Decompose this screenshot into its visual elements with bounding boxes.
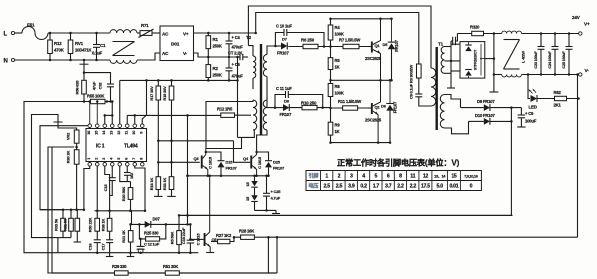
pin 3 IC1 bottom bbox=[103, 163, 107, 167]
svg-text:2.5: 2.5 bbox=[323, 184, 330, 190]
wire aux rectifier join bbox=[490, 107, 522, 109]
svg-text:100K: 100K bbox=[335, 32, 344, 37]
svg-text:R19 36V: R19 36V bbox=[162, 86, 167, 101]
resistor R25 330 bbox=[139, 224, 145, 239]
svg-text:R20 56K: R20 56K bbox=[121, 186, 126, 201]
resistor R1 250K bbox=[207, 33, 209, 57]
svg-text:D07: D07 bbox=[153, 217, 161, 222]
svg-text:引脚: 引脚 bbox=[308, 172, 318, 180]
pin 4 IC1 bottom bbox=[110, 163, 114, 167]
wire LED branch bbox=[528, 75, 530, 99]
svg-text:R9: R9 bbox=[335, 123, 341, 128]
resistor R10 250 bbox=[289, 107, 330, 109]
svg-text:4.7uF: 4.7uF bbox=[271, 196, 281, 201]
wire emitter return rail bbox=[331, 142, 392, 144]
resistor R12 1R5 bbox=[221, 113, 235, 117]
svg-text:R12 1R5: R12 1R5 bbox=[217, 107, 233, 112]
resistor R320 bbox=[457, 33, 501, 35]
varistor RV1 10D471K bbox=[70, 33, 72, 60]
snubber capacitor across rectifier bbox=[451, 40, 453, 42]
capacitor C12 1uF bbox=[140, 239, 142, 247]
ground R16 bbox=[154, 195, 163, 197]
wire pin15/16 feed bbox=[89, 102, 91, 125]
svg-text:FR107: FR107 bbox=[273, 166, 285, 171]
svg-text:3.9: 3.9 bbox=[348, 184, 355, 190]
diode D25 FR107 bbox=[257, 152, 269, 161]
wire driver emitter line bbox=[188, 175, 269, 177]
svg-text:V+: V+ bbox=[584, 22, 590, 28]
capacitor C14 102 bbox=[126, 166, 128, 173]
svg-text:R33 1K: R33 1K bbox=[162, 178, 167, 191]
wire V- output line bbox=[494, 74, 502, 76]
wire D07 line bbox=[132, 223, 191, 225]
svg-text:2SC2625: 2SC2625 bbox=[365, 56, 382, 61]
thermistor R71 bbox=[137, 32, 140, 34]
wire pin13/14 link bbox=[105, 114, 113, 116]
wire secondary taps bbox=[445, 46, 452, 48]
svg-text:5: 5 bbox=[117, 158, 121, 160]
svg-text:R33 56: R33 56 bbox=[54, 218, 59, 231]
pin 2 IC1 bottom bbox=[95, 163, 99, 167]
capacitor C4 470uF bbox=[228, 33, 230, 41]
svg-text:FR107: FR107 bbox=[392, 101, 397, 113]
diode D6 FR107 bbox=[389, 80, 391, 103]
resistor R28 16K bbox=[234, 236, 268, 238]
diode D9 FR107 bbox=[461, 107, 484, 109]
svg-text:3.7: 3.7 bbox=[385, 184, 392, 190]
svg-text:6: 6 bbox=[387, 174, 390, 180]
transistor Q3 C1815 bbox=[201, 156, 203, 169]
svg-text:0.2: 0.2 bbox=[360, 184, 367, 190]
svg-text:5.0: 5.0 bbox=[436, 184, 443, 190]
svg-text:C8 0.1uF R3 300/2W: C8 0.1uF R3 300/2W bbox=[409, 64, 414, 99]
wire feedback loop outer bbox=[24, 102, 83, 253]
svg-text:C18 22uF: C18 22uF bbox=[181, 227, 186, 244]
wire aux winding taps bbox=[445, 95, 461, 108]
transformer T1 secondary winding top bbox=[441, 47, 444, 74]
svg-text:FR107: FR107 bbox=[226, 166, 238, 171]
svg-text:4: 4 bbox=[362, 174, 365, 180]
svg-text:STPR1620CT: STPR1620CT bbox=[474, 49, 478, 70]
svg-text:R10 250: R10 250 bbox=[301, 101, 317, 106]
svg-text:R5 56K: R5 56K bbox=[170, 232, 175, 245]
svg-text:2.2: 2.2 bbox=[397, 184, 404, 190]
resistor R27 1K2 bbox=[211, 241, 234, 243]
transformer T1 primary winding bbox=[431, 68, 436, 106]
resistor R21 1K bbox=[128, 231, 133, 242]
svg-text:D25: D25 bbox=[273, 160, 281, 165]
svg-text:R16 1K: R16 1K bbox=[149, 178, 154, 191]
svg-text:L: L bbox=[4, 32, 8, 38]
svg-text:C15: C15 bbox=[103, 184, 108, 192]
svg-text:V-: V- bbox=[585, 68, 590, 74]
ground driver bbox=[255, 209, 277, 211]
svg-text:R25 330: R25 330 bbox=[144, 231, 159, 236]
svg-text:9: 9 bbox=[139, 132, 143, 134]
svg-text:11: 11 bbox=[124, 131, 128, 135]
wire column to D07 line bbox=[187, 115, 189, 224]
wire top rail A bbox=[248, 6, 431, 68]
wire feedback bus pin11 bbox=[126, 115, 128, 124]
svg-text:47uF: 47uF bbox=[92, 81, 97, 90]
diode D07 bbox=[145, 221, 151, 228]
svg-text:R51 30K: R51 30K bbox=[163, 264, 178, 269]
svg-text:C 11 1uF: C 11 1uF bbox=[276, 86, 292, 91]
svg-text:D01: D01 bbox=[171, 42, 180, 48]
resistor R7 1.5/0.5W bbox=[331, 46, 369, 48]
svg-text:12: 12 bbox=[423, 174, 429, 180]
svg-text:102: 102 bbox=[129, 172, 134, 179]
wire pin7 route bbox=[135, 166, 145, 211]
wire outer return rail bbox=[268, 236, 577, 238]
svg-text:R38 1K: R38 1K bbox=[100, 219, 105, 232]
capacitor C1 0.1uF bbox=[96, 33, 98, 45]
zener Z5 15V bbox=[254, 176, 256, 181]
svg-text:V+: V+ bbox=[183, 32, 189, 37]
svg-text:RV1: RV1 bbox=[75, 41, 84, 46]
svg-text:AC: AC bbox=[162, 51, 169, 56]
resistor R2 250K bbox=[207, 57, 209, 80]
node divider mid / capacitor CT 2.2K bbox=[206, 56, 241, 58]
pin 8 IC1 bottom bbox=[140, 163, 144, 167]
wire bottom rail bbox=[52, 272, 277, 274]
svg-text:C25 100uF: C25 100uF bbox=[562, 51, 566, 69]
resistor R33b 56K bbox=[62, 210, 64, 219]
svg-text:L 4/2W: L 4/2W bbox=[521, 51, 526, 63]
capacitor C25 100uF bbox=[568, 34, 570, 47]
svg-text:24V: 24V bbox=[572, 15, 581, 20]
svg-text:0: 0 bbox=[470, 184, 473, 190]
svg-text:D10 FR107: D10 FR107 bbox=[475, 113, 495, 118]
resistor R32 bbox=[76, 210, 78, 219]
svg-text:FR107: FR107 bbox=[277, 51, 289, 56]
svg-text:R62: R62 bbox=[554, 90, 562, 95]
wire V+ rail from bridge bbox=[194, 32, 256, 34]
svg-text:10: 10 bbox=[132, 131, 136, 135]
svg-text:R71: R71 bbox=[141, 23, 149, 28]
svg-text:C17: C17 bbox=[100, 243, 105, 251]
wire drive bus bbox=[158, 140, 233, 142]
resistor R38 1K bbox=[109, 211, 111, 219]
wire pin9 stub bbox=[142, 80, 146, 124]
resistor R19 36V bbox=[171, 80, 173, 140]
svg-text:IC 1: IC 1 bbox=[96, 144, 105, 150]
resistor R8 100K bbox=[330, 80, 332, 108]
resistor R16 1K bbox=[157, 141, 159, 177]
svg-text:TL494: TL494 bbox=[124, 144, 138, 150]
fuse F51 bbox=[15, 32, 22, 34]
svg-text:17.5: 17.5 bbox=[421, 184, 430, 190]
svg-text:N: N bbox=[4, 59, 8, 65]
terminal N bbox=[11, 58, 14, 61]
svg-text:100uF: 100uF bbox=[525, 119, 537, 124]
resistor R20 56K bbox=[128, 188, 133, 200]
capacitor C25 4.7uF bbox=[266, 176, 268, 194]
svg-text:R8: R8 bbox=[335, 84, 341, 89]
svg-text:13、14: 13、14 bbox=[434, 174, 446, 179]
wire collector rail Q1 bbox=[331, 18, 392, 20]
svg-text:R1: R1 bbox=[213, 37, 219, 42]
LED bbox=[531, 95, 538, 102]
resistor R50 22K bbox=[96, 211, 98, 219]
node stub from N line bbox=[83, 60, 85, 68]
svg-text:7: 7 bbox=[132, 158, 136, 160]
transformer T2 winding top-right bbox=[267, 46, 275, 55]
wire secondary center tap bbox=[445, 60, 463, 62]
svg-text:R2: R2 bbox=[213, 66, 219, 71]
svg-text:R27 1K2: R27 1K2 bbox=[216, 233, 232, 238]
pin 1 IC1 bottom bbox=[88, 163, 92, 167]
svg-text:C16: C16 bbox=[88, 243, 93, 251]
transformer T2 drive winding bottom-right bbox=[263, 100, 267, 130]
svg-text:R5: R5 bbox=[335, 58, 341, 63]
svg-text:5: 5 bbox=[375, 174, 378, 180]
svg-text:100K: 100K bbox=[335, 91, 344, 96]
svg-text:R4: R4 bbox=[335, 25, 341, 30]
pin 13 IC1 top bbox=[110, 124, 114, 128]
capacitor C11 1uF bbox=[275, 95, 286, 108]
svg-text:470uF: 470uF bbox=[232, 45, 244, 50]
capacitor C18 22uF bbox=[189, 224, 191, 240]
svg-text:1: 1 bbox=[325, 174, 328, 180]
pin 16 IC1 top bbox=[88, 124, 92, 128]
svg-text:15: 15 bbox=[94, 131, 98, 135]
wire pin10 stub bbox=[134, 115, 136, 124]
diode D5 FR107 bbox=[391, 19, 393, 42]
capacitor C9 100uF bbox=[520, 108, 522, 115]
svg-text:8: 8 bbox=[139, 158, 143, 160]
pin 5 IC1 bottom bbox=[118, 163, 122, 167]
svg-text:T2: T2 bbox=[246, 35, 252, 40]
svg-text:R12: R12 bbox=[54, 41, 62, 46]
terminal V- bbox=[579, 73, 582, 76]
svg-text:0.1uF: 0.1uF bbox=[92, 51, 103, 56]
svg-text:2: 2 bbox=[94, 158, 98, 160]
diode D15 FR107 bbox=[206, 152, 221, 161]
svg-text:+ C25: + C25 bbox=[271, 189, 282, 194]
wire feedback loop fourth bbox=[48, 147, 74, 273]
wire pin12 VCC drop bbox=[119, 80, 121, 124]
svg-text:3: 3 bbox=[350, 174, 353, 180]
wire primary return drop bbox=[237, 57, 239, 137]
resistor R3 300/2W and capacitor C8 0.1uF snubber bbox=[417, 64, 422, 78]
svg-text:R28 16K: R28 16K bbox=[239, 229, 254, 234]
svg-text:R21 1K: R21 1K bbox=[121, 230, 126, 243]
svg-text:R6 250: R6 250 bbox=[301, 38, 315, 43]
resistor R33 1K bbox=[171, 141, 173, 177]
wire bottom rail right end bbox=[276, 237, 278, 273]
svg-text:1K: 1K bbox=[335, 129, 340, 134]
transistor Q1 2SC2625 bbox=[371, 42, 373, 53]
svg-text:C 1815: C 1815 bbox=[208, 156, 213, 169]
pin 12 IC1 top bbox=[118, 124, 122, 128]
resistor R6 250 bbox=[288, 46, 331, 48]
wire pin1 route bbox=[84, 166, 90, 210]
svg-text:R31 56: R31 56 bbox=[63, 218, 68, 231]
wire V- stub from bridge bbox=[194, 53, 206, 57]
pin 15 IC1 top bbox=[95, 124, 99, 128]
svg-text:6: 6 bbox=[124, 158, 128, 160]
wire ground line bottom-left bbox=[58, 252, 198, 254]
diode D10 FR107 bbox=[469, 120, 484, 122]
diode D7 FR107 bbox=[275, 45, 281, 47]
svg-text:8: 8 bbox=[399, 174, 402, 180]
resistor R12 470K bbox=[49, 33, 51, 60]
svg-text:V-: V- bbox=[183, 51, 188, 56]
common-mode choke line filter bbox=[110, 30, 137, 33]
pin 9 IC1 top bbox=[140, 124, 144, 128]
svg-text:+ C5: + C5 bbox=[232, 62, 241, 67]
resistor R31 56K bbox=[70, 210, 72, 219]
terminal L bbox=[11, 31, 14, 34]
transformer T2 core bbox=[260, 44, 262, 135]
wire Q3 base line bbox=[158, 161, 200, 163]
wire rectifier output to choke node bbox=[485, 58, 494, 60]
capacitor C32 47uF bbox=[84, 73, 111, 84]
svg-text:R55 100K: R55 100K bbox=[87, 94, 104, 99]
svg-text:250K: 250K bbox=[213, 44, 222, 49]
capacitor C15 bbox=[111, 166, 113, 178]
diode D8 FR107 bbox=[267, 107, 283, 109]
resistor R5 1K bbox=[330, 47, 332, 81]
wire L line bbox=[48, 32, 110, 34]
svg-text:11: 11 bbox=[410, 174, 415, 180]
svg-text:C 12 1uF: C 12 1uF bbox=[144, 242, 160, 247]
wire pin2 route bbox=[96, 166, 98, 211]
svg-text:FR107: FR107 bbox=[394, 39, 399, 51]
wire inner return rail bbox=[179, 214, 513, 216]
svg-text:C 1815: C 1815 bbox=[257, 156, 262, 169]
svg-text:C 10 1uF: C 10 1uF bbox=[276, 24, 292, 29]
resistor R62 2K1 bbox=[537, 98, 579, 100]
svg-text:R320: R320 bbox=[470, 25, 480, 30]
wire group top line right bbox=[95, 210, 146, 212]
wire feedback loop third bbox=[40, 126, 88, 210]
ground secondary-left bbox=[447, 87, 455, 89]
svg-text:3: 3 bbox=[102, 158, 106, 160]
svg-text:2SC2625: 2SC2625 bbox=[365, 118, 382, 123]
transistor Q2 2SC2625 bbox=[371, 103, 373, 114]
resistor R29 330 bbox=[115, 271, 129, 275]
ground R33 bbox=[167, 195, 176, 197]
ground C9 bbox=[517, 126, 526, 128]
capacitor C5 470uF bbox=[228, 57, 230, 68]
transformer T2 primary winding top-left bbox=[248, 46, 253, 56]
capacitor C17 bbox=[106, 239, 113, 241]
pin 7 IC1 bottom bbox=[133, 163, 137, 167]
svg-text:2.5: 2.5 bbox=[336, 184, 343, 190]
transistor Q5 C1815 bbox=[190, 238, 203, 240]
svg-text:C24 100uF: C24 100uF bbox=[548, 51, 552, 69]
svg-text:R29 330: R29 330 bbox=[112, 264, 127, 269]
svg-text:AC: AC bbox=[162, 32, 169, 37]
svg-text:C1: C1 bbox=[100, 43, 106, 48]
ground rectifier center bbox=[489, 91, 498, 93]
resistor R51 30K bbox=[165, 271, 179, 275]
svg-text:D15: D15 bbox=[226, 160, 234, 165]
svg-text:2K1: 2K1 bbox=[554, 103, 562, 108]
capacitor C16 bbox=[94, 239, 101, 241]
resistor R4 100K bbox=[330, 19, 332, 47]
wire group top line left bbox=[40, 209, 84, 211]
terminal V+ 24V bbox=[579, 32, 582, 35]
wire V+ output line bbox=[522, 33, 579, 35]
pin 11 IC1 top bbox=[125, 124, 129, 128]
capacitor C24 100uF bbox=[554, 34, 556, 47]
svg-text:16: 16 bbox=[87, 131, 91, 135]
wire group bottoms bbox=[58, 237, 71, 239]
svg-text:R30 2K: R30 2K bbox=[66, 151, 71, 164]
svg-text:C32: C32 bbox=[98, 82, 103, 90]
capacitor C10 1uF bbox=[275, 33, 284, 47]
svg-text:FR107: FR107 bbox=[280, 112, 292, 117]
svg-text:15: 15 bbox=[451, 174, 457, 180]
transformer T1 core bbox=[436, 47, 438, 130]
svg-text:1: 1 bbox=[87, 158, 91, 160]
svg-text:2.2: 2.2 bbox=[410, 184, 417, 190]
pin 14 IC1 top bbox=[103, 124, 107, 128]
svg-text:+ C9: + C9 bbox=[525, 111, 534, 116]
wire feedback loop second bbox=[32, 115, 59, 238]
wire N to bridge bbox=[137, 53, 160, 60]
svg-text:T1: T1 bbox=[438, 42, 444, 47]
svg-text:F51: F51 bbox=[27, 23, 35, 28]
svg-text:10D471K: 10D471K bbox=[75, 48, 91, 53]
dual schottky rectifier STPR1620CT bbox=[460, 42, 485, 79]
resistor R17 36V bbox=[157, 80, 159, 140]
resistor R11 1.5/0.5W bbox=[331, 107, 369, 109]
svg-text:R17 36V: R17 36V bbox=[149, 86, 154, 101]
transformer T2 drive winding bottom-left bbox=[253, 100, 257, 130]
wire pin5 link bbox=[120, 166, 131, 182]
svg-text:C23 100uF: C23 100uF bbox=[534, 51, 538, 69]
svg-text:2: 2 bbox=[338, 174, 341, 180]
stub antenna node bbox=[54, 121, 63, 123]
trimmer VR2 bbox=[58, 122, 77, 130]
svg-text:VR2: VR2 bbox=[66, 132, 71, 140]
svg-text:CT 2.2K: CT 2.2K bbox=[228, 51, 242, 56]
svg-text:+ C4: + C4 bbox=[232, 35, 241, 40]
capacitor C23 100uF bbox=[540, 34, 542, 47]
pin 6 IC1 bottom bbox=[125, 163, 129, 167]
wire bulk bottom / VCC line bbox=[120, 79, 238, 81]
svg-text:1K: 1K bbox=[335, 65, 340, 70]
svg-text:1.7: 1.7 bbox=[373, 184, 380, 190]
wire Q4 base feed bbox=[234, 141, 251, 163]
svg-text:R56 620: R56 620 bbox=[75, 80, 80, 95]
resistor R55 100K bbox=[83, 101, 112, 103]
svg-text:13: 13 bbox=[109, 131, 113, 135]
svg-text:R50 22K: R50 22K bbox=[88, 217, 93, 232]
output choke L 4/2W bbox=[502, 31, 522, 33]
svg-text:R7 1.5/0.5W: R7 1.5/0.5W bbox=[339, 38, 360, 43]
wire emitter mid-rail bbox=[331, 79, 392, 81]
svg-text:12: 12 bbox=[117, 131, 121, 135]
transformer T1 secondary winding bottom bbox=[440, 95, 444, 129]
pin 10 IC1 top bbox=[133, 124, 137, 128]
svg-text:R11 1.5/0.5W: R11 1.5/0.5W bbox=[338, 99, 361, 104]
transistor Q4 C1815 bbox=[250, 156, 252, 169]
svg-text:470K: 470K bbox=[54, 48, 65, 53]
svg-text:电压: 电压 bbox=[308, 182, 319, 190]
resistor R56 620 bbox=[83, 68, 85, 81]
svg-text:LED: LED bbox=[529, 105, 537, 110]
wire N line bbox=[15, 59, 110, 61]
svg-text:正常工作时各引脚电压表(单位：V): 正常工作时各引脚电压表(单位：V) bbox=[337, 158, 460, 168]
svg-text:0.01: 0.01 bbox=[449, 184, 458, 190]
bridge rectifier D01 bbox=[160, 26, 194, 61]
svg-text:C 1815: C 1815 bbox=[196, 233, 201, 246]
